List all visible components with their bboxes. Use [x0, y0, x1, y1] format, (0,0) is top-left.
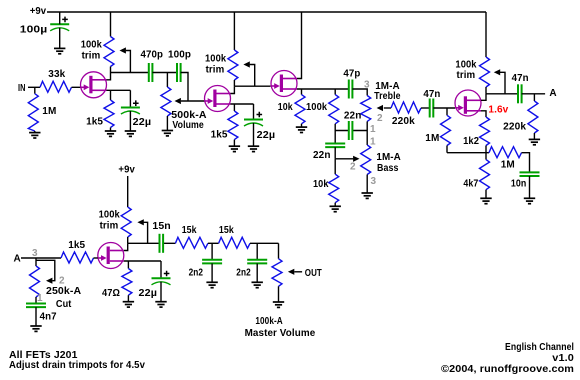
transistor Q4	[455, 90, 481, 116]
trim5 wiper arrow	[137, 219, 143, 225]
wire 100p to wiper node	[181, 73, 188, 102]
resistor 100k trim 4	[480, 57, 490, 87]
svg-text:15k: 15k	[219, 225, 234, 236]
wire 1M2 top	[446, 108, 448, 115]
svg-text:47n: 47n	[423, 89, 440, 100]
svg-text:1k2: 1k2	[463, 136, 479, 147]
wire Q5 source	[124, 260, 161, 262]
resistor 15k first	[175, 237, 208, 248]
bass wiper arrow	[353, 156, 359, 162]
wire 1k5 to ground	[110, 128, 112, 132]
wire 47p to treble top	[352, 89, 367, 96]
svg-text:1M: 1M	[501, 160, 515, 171]
wire trim4 wiper	[500, 72, 505, 94]
capacitor 15n	[160, 234, 164, 253]
svg-text:47p: 47p	[343, 68, 360, 79]
capacitor 22µ stage5	[152, 271, 171, 285]
transistor Q1	[81, 72, 107, 98]
wire 2n2b ground	[256, 263, 258, 282]
wire trim2 bottom	[233, 80, 235, 86]
resistor 33k	[40, 81, 72, 92]
svg-text:3: 3	[364, 80, 370, 91]
ground 10k stage3	[296, 127, 307, 132]
svg-text:1M: 1M	[42, 106, 56, 117]
svg-text:v1.0: v1.0	[552, 353, 574, 364]
transistor Q5	[98, 243, 124, 269]
wire 47n2 to A	[522, 93, 546, 95]
wire to 10k2	[334, 159, 336, 174]
svg-text:trim: trim	[206, 64, 225, 75]
svg-text:22n: 22n	[313, 150, 331, 161]
wire rail to trim2	[233, 12, 235, 50]
svg-text:IN: IN	[18, 83, 26, 94]
svg-text:1k5: 1k5	[86, 117, 103, 128]
svg-text:1M-A: 1M-A	[376, 152, 401, 163]
trim4 wiper arrow	[494, 69, 500, 75]
svg-text:47n: 47n	[512, 73, 529, 84]
svg-text:3: 3	[371, 176, 377, 187]
svg-text:3: 3	[32, 248, 38, 259]
wire 1M2 bottom	[446, 146, 448, 153]
capacitor 47n output	[518, 84, 522, 103]
svg-text:22n: 22n	[344, 110, 362, 121]
svg-text:2: 2	[350, 162, 356, 173]
wire 4k7 ground	[485, 190, 487, 199]
svg-text:English Channel: English Channel	[505, 342, 574, 353]
resistor 1M-A treble pot	[361, 96, 371, 122]
ground 2n2 first	[206, 282, 217, 287]
svg-text:1k5: 1k5	[211, 130, 228, 141]
ground 22µ stage2	[248, 146, 259, 151]
wire 22µ1 top	[129, 90, 131, 107]
resistor 220k	[391, 102, 421, 113]
ground 2n2 second	[252, 282, 263, 287]
wire 22n2 top	[334, 131, 336, 144]
resistor 1M gate leak	[441, 115, 451, 145]
wire Q2 source to 1k5	[233, 104, 235, 111]
svg-text:22µ: 22µ	[257, 130, 276, 141]
wire 4k7 top	[485, 153, 487, 160]
svg-text:2n2: 2n2	[236, 268, 251, 279]
svg-text:100k: 100k	[81, 40, 103, 51]
wire 22µ1 to ground	[129, 111, 131, 131]
resistor 47Ω source	[122, 269, 132, 296]
wire 4n7 ground	[35, 307, 37, 326]
svg-text:220k: 220k	[392, 116, 415, 127]
svg-text:100k-A: 100k-A	[255, 316, 282, 327]
capacitor 22µ stage1	[121, 100, 140, 114]
wire volume to ground	[166, 116, 168, 131]
svg-text:22µ: 22µ	[139, 288, 158, 299]
wire cut to 4n7	[35, 297, 37, 304]
svg-text:4n7: 4n7	[40, 312, 57, 323]
svg-text:100k: 100k	[99, 210, 121, 221]
resistor 1k5 stage1	[104, 100, 114, 128]
wire 1k5 stage2 ground	[233, 140, 235, 147]
wire bass bottom	[366, 175, 368, 194]
ground volume	[162, 131, 173, 136]
svg-text:470p: 470p	[141, 50, 164, 61]
svg-text:1k5: 1k5	[68, 240, 85, 251]
ground 4k7	[480, 198, 491, 203]
wire +9v to trim5	[127, 176, 129, 207]
resistor 500k-A volume pot	[161, 87, 171, 116]
svg-text:+9v: +9v	[30, 6, 47, 17]
wire Q1 drain node	[107, 73, 149, 80]
resistor 1M-A bass pot	[361, 145, 371, 175]
wire 220k to 47n	[421, 107, 430, 109]
wire 22µ2 to ground	[253, 123, 255, 146]
ground 100µ	[54, 48, 65, 53]
trim2 wiper arrow	[243, 61, 249, 67]
resistor 15k second	[219, 237, 250, 248]
svg-text:15n: 15n	[152, 221, 170, 232]
resistor 250k-A cut pot	[30, 266, 40, 297]
resistor 4k7	[480, 160, 490, 190]
wire treble bottom	[366, 121, 368, 130]
wire Q3 drain to rail	[297, 12, 302, 79]
ground 220k pulldown	[529, 139, 540, 144]
ground bass	[362, 193, 373, 198]
resistor 100k-A master volume pot	[272, 259, 282, 287]
transistor Q2	[205, 86, 231, 112]
ground 22µ stage1	[125, 131, 136, 136]
wire slope node	[335, 130, 367, 132]
resistor 1M input	[28, 94, 38, 131]
wire Q4 source	[481, 111, 486, 117]
wire 100k tone bottom	[334, 124, 336, 131]
svg-text:100k: 100k	[205, 54, 227, 65]
ground master volume	[273, 302, 284, 307]
wire rail corner to trim4	[485, 12, 487, 57]
wire between 15k	[208, 242, 219, 244]
wire 10k1 ground	[301, 124, 303, 127]
svg-text:Master Volume: Master Volume	[245, 328, 316, 339]
resistor 1k2	[480, 117, 490, 146]
svg-text:1.6v: 1.6v	[488, 104, 508, 115]
wire 2n2a top	[211, 243, 213, 259]
wire trim2 wiper	[250, 65, 255, 87]
wire 10k1 top	[301, 89, 303, 95]
capacitor 100µ filter	[50, 17, 69, 31]
svg-text:100µ: 100µ	[20, 25, 48, 36]
volume wiper arrow	[175, 98, 181, 104]
master wiper arrow	[288, 269, 294, 275]
svg-text:Adjust drain trimpots for 4.5v: Adjust drain trimpots for 4.5v	[9, 360, 145, 371]
wire Q2 source	[231, 103, 254, 105]
wire 47n to Q4 gate	[433, 107, 455, 109]
wire 22µ3 ground	[160, 282, 162, 302]
svg-text:trim: trim	[100, 220, 119, 231]
resistor 10k bass leg	[329, 174, 339, 203]
capacitor 100p bright	[177, 63, 181, 82]
svg-text:A: A	[549, 88, 556, 99]
resistor 100k trim 5	[121, 207, 131, 237]
svg-text:10n: 10n	[511, 178, 527, 189]
wire source bottom bus	[447, 152, 489, 154]
wire bass wiper line	[335, 158, 353, 160]
wire trim1 wiper	[126, 51, 131, 73]
svg-text:22µ: 22µ	[133, 117, 152, 128]
wire 2n2a ground	[211, 263, 213, 282]
wire trim5 wiper	[144, 222, 148, 243]
trim1 wiper arrow	[120, 47, 126, 53]
ground 47Ω	[123, 302, 134, 307]
ground 4n7	[30, 326, 41, 331]
svg-text:220k: 220k	[503, 122, 526, 133]
wire master top	[278, 243, 280, 258]
resistor 100k trim 2	[228, 50, 238, 80]
svg-text:A: A	[14, 254, 21, 265]
wire between 470p 100p	[152, 72, 177, 74]
resistor 100k tone	[329, 95, 339, 124]
ground 10n	[524, 198, 535, 203]
wire Q3 source bus	[297, 88, 349, 90]
capacitor 47p treble	[349, 80, 353, 99]
svg-text:OUT: OUT	[305, 268, 322, 279]
svg-text:4k7: 4k7	[463, 178, 478, 189]
wire bass top	[366, 131, 368, 146]
wire input	[28, 86, 40, 88]
wire Q2 drain node	[231, 86, 271, 93]
svg-text:+9v: +9v	[118, 165, 135, 176]
wire 2n2b top	[256, 243, 258, 259]
ground 1k5 stage1	[105, 131, 116, 136]
resistor 1k5 stage5	[61, 252, 94, 263]
wire 100k tone top	[334, 89, 336, 95]
wire Q1 source to 1k5	[110, 90, 112, 100]
svg-text:2: 2	[377, 113, 383, 124]
svg-text:trim: trim	[457, 70, 476, 81]
wire trim4 bottom	[485, 87, 487, 94]
wire 1k2 bottom	[485, 146, 487, 153]
svg-text:100k: 100k	[455, 59, 477, 70]
ground 1k5 stage2	[229, 146, 240, 151]
svg-text:1M: 1M	[425, 133, 439, 144]
wire treble wiper to 220k	[384, 107, 391, 109]
wire +9v rail	[47, 11, 486, 13]
capacitor 22µ stage2	[244, 112, 263, 126]
wire 47R top	[127, 261, 129, 269]
transistor Q3	[271, 71, 297, 97]
svg-text:1: 1	[37, 293, 43, 304]
wire Q1 source	[107, 89, 131, 91]
resistor 1k5 stage2	[228, 111, 238, 140]
wire 33k to Q1 gate	[72, 86, 81, 88]
wire 15k2 to master	[250, 242, 279, 244]
treble wiper arrow	[377, 105, 383, 111]
wire master ground	[278, 286, 280, 302]
svg-text:2: 2	[59, 276, 65, 287]
capacitor 2n2 second	[247, 260, 267, 264]
svg-text:Cut: Cut	[56, 299, 72, 310]
wire master wiper out	[294, 271, 302, 273]
svg-text:Treble: Treble	[374, 91, 401, 102]
wire 220k2 ground	[533, 133, 535, 139]
wire 220k2 top	[533, 94, 535, 101]
capacitor 47n coupling	[430, 99, 434, 118]
svg-text:15k: 15k	[182, 225, 197, 236]
capacitor 4n7	[26, 304, 46, 308]
svg-text:1: 1	[370, 124, 376, 135]
ground 22µ stage5	[155, 302, 166, 307]
svg-text:Bass: Bass	[377, 163, 399, 174]
resistor 10k stage3	[295, 95, 305, 124]
wire Q5 drain bus	[128, 242, 176, 244]
svg-text:100p: 100p	[168, 50, 191, 61]
wire 22µ3 top	[160, 261, 162, 278]
ground 10k bass leg	[330, 206, 341, 211]
capacitor 470p	[149, 63, 153, 82]
resistor 1M feedback	[489, 147, 522, 158]
svg-text:Volume: Volume	[172, 120, 204, 131]
cut wiper arrow	[46, 278, 52, 284]
svg-text:47Ω: 47Ω	[102, 288, 120, 299]
resistor 220k pulldown	[528, 101, 538, 133]
svg-text:trim: trim	[82, 51, 101, 62]
svg-text:250k-A: 250k-A	[46, 286, 81, 297]
capacitor 22n slope	[349, 121, 353, 140]
wire 1M junction	[34, 87, 36, 93]
svg-text:10k: 10k	[313, 179, 329, 190]
capacitor 2n2 first	[202, 260, 222, 264]
resistor 100k trim 1	[104, 37, 114, 67]
wire volume wiper to Q2 gate	[181, 100, 205, 102]
wire 100µ top	[59, 12, 61, 24]
svg-text:33k: 33k	[48, 69, 65, 80]
wire cut wiper	[36, 260, 55, 280]
capacitor 22n bass	[325, 144, 345, 148]
wire 10k2 ground	[334, 203, 336, 207]
wire trim1 bottom	[110, 67, 112, 73]
wire Q5 drain	[124, 243, 128, 250]
ground 1M	[29, 133, 40, 138]
wire rail to trim1	[110, 12, 112, 37]
svg-text:2n2: 2n2	[189, 268, 204, 279]
svg-text:10k: 10k	[278, 102, 293, 113]
svg-text:©2004, runoffgroove.com: ©2004, runoffgroove.com	[441, 364, 574, 375]
svg-text:100k: 100k	[306, 102, 328, 113]
wire 1k5 to Q5 gate	[94, 257, 98, 259]
svg-text:1: 1	[370, 137, 376, 148]
wire Q4 drain node	[481, 94, 518, 101]
wire 22n2 to bass wiper	[334, 147, 336, 159]
wire trim5 bottom	[127, 237, 129, 243]
wire 1M to ground	[34, 131, 36, 133]
capacitor 10n	[520, 172, 540, 176]
wire to volume top	[166, 73, 168, 88]
wire 1M3 to 10n	[522, 153, 530, 173]
wire A input	[21, 257, 61, 259]
wire 47R ground	[127, 295, 129, 302]
wire 22µ2 top	[253, 104, 255, 120]
wire 100µ to ground	[59, 28, 61, 49]
wire 10n ground	[529, 176, 531, 198]
wire cut top	[35, 258, 37, 266]
